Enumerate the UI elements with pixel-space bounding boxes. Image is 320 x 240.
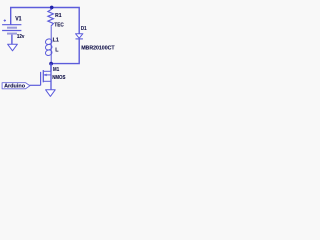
ground (MOSFET source) bbox=[46, 90, 56, 97]
ground (battery) bbox=[8, 44, 18, 51]
wire: gate lead from Arduino flag to gate bbox=[30, 84, 41, 86]
svg-text:12v: 12v bbox=[17, 34, 25, 40]
node: switch node junction dot (L1 / D1 / drain) bbox=[49, 62, 53, 66]
battery plus polarity mark bbox=[4, 19, 6, 21]
svg-text:TEC: TEC bbox=[54, 22, 63, 28]
svg-text:V1: V1 bbox=[15, 16, 22, 22]
svg-text:NMOS: NMOS bbox=[52, 75, 66, 81]
resistor R1 bbox=[48, 9, 54, 27]
svg-text:MBR20100CT: MBR20100CT bbox=[81, 45, 115, 51]
svg-text:Arduino: Arduino bbox=[4, 84, 25, 90]
battery V1 plates bbox=[2, 25, 21, 35]
svg-text:M1: M1 bbox=[53, 67, 59, 73]
wire: switch node down to M1 drain bbox=[50, 64, 52, 72]
node: junction dot at R1 top on rail bbox=[50, 6, 54, 10]
svg-text:L1: L1 bbox=[53, 38, 59, 44]
wire: +12V top rail from V1 positive to D1 anode bbox=[11, 8, 80, 34]
diode D1 bbox=[76, 34, 83, 39]
wire: D1 cathode down to switch node bbox=[51, 39, 79, 64]
svg-text:D1: D1 bbox=[81, 26, 87, 32]
svg-text:R1: R1 bbox=[55, 13, 62, 19]
node Arduino: input net flag bbox=[2, 83, 30, 90]
inductor L1 bbox=[45, 26, 53, 63]
wire: battery negative to ground bbox=[11, 35, 13, 45]
transistor M1 NMOS bbox=[41, 64, 51, 90]
